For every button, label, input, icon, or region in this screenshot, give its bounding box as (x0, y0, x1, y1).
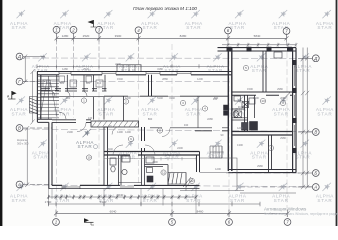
svg-text:11: 11 (162, 171, 165, 175)
svg-text:5140: 5140 (157, 96, 163, 100)
svg-text:1480: 1480 (173, 153, 179, 157)
flag bottom (84, 221, 94, 223)
svg-text:Чтобы активировать Windows, пе: Чтобы активировать Windows, перейдите в … (264, 212, 338, 216)
svg-text:А: А (17, 182, 21, 187)
svg-text:140: 140 (88, 116, 93, 120)
watermark grid ALPHA STAR (10, 10, 334, 203)
svg-text:3140: 3140 (107, 147, 113, 151)
svg-text:2190: 2190 (67, 130, 73, 134)
svg-text:1500: 1500 (247, 87, 253, 91)
svg-text:1750: 1750 (45, 200, 52, 204)
right wing walls (218, 48, 297, 173)
right axis circles (312, 55, 319, 62)
svg-text:890: 890 (148, 117, 153, 121)
svg-text:Активация Windows: Активация Windows (264, 207, 307, 212)
center interior walls (104, 127, 200, 185)
svg-text:760: 760 (46, 81, 51, 85)
svg-text:880: 880 (66, 96, 71, 100)
bottom wall left block (49, 188, 200, 190)
fixtures right wing (232, 52, 290, 130)
svg-text:Б: Б (314, 171, 317, 176)
left outer wall upper (37, 72, 40, 123)
interior walls upper-left (41, 75, 107, 120)
top dimension line (55, 34, 289, 42)
svg-text:1200: 1200 (237, 126, 243, 130)
svg-text:Д: Д (17, 54, 21, 59)
svg-text:2980: 2980 (280, 136, 286, 140)
door arcs (112, 127, 155, 156)
interior dim line y158.7 (104, 157, 196, 160)
svg-text:В: В (18, 126, 21, 131)
left wall step (37, 119, 52, 122)
entrance flag top (93, 20, 95, 27)
terrace outline (180, 158, 244, 191)
svg-text:1300: 1300 (237, 143, 243, 147)
building walls (37, 65, 232, 189)
svg-text:1400: 1400 (253, 96, 259, 100)
svg-text:3180: 3180 (157, 67, 163, 71)
staircase (38, 76, 66, 119)
bay above top wall (117, 65, 141, 72)
svg-text:1200: 1200 (197, 77, 203, 81)
svg-text:А: А (313, 185, 317, 190)
svg-text:8280: 8280 (180, 34, 187, 38)
elevation mark left (11, 91, 13, 99)
left outer wall lower (49, 122, 52, 188)
svg-text:680: 680 (86, 81, 91, 85)
svg-text:2: 2 (71, 27, 75, 32)
svg-text:2980: 2980 (277, 87, 283, 91)
svg-text:2980: 2980 (257, 164, 263, 168)
svg-text:6040: 6040 (110, 209, 117, 213)
svg-text:8460: 8460 (197, 209, 204, 213)
svg-text:1540: 1540 (117, 77, 123, 81)
svg-text:910: 910 (238, 105, 243, 109)
top main wall (37, 71, 232, 73)
svg-text:2680: 2680 (280, 96, 286, 100)
room circles (81, 65, 285, 183)
tiny dim texts (46, 62, 287, 171)
entrance ramp hatch (30, 97, 38, 114)
svg-text:5140: 5140 (100, 200, 107, 204)
scan edge right (336, 0, 338, 226)
svg-text:1280: 1280 (62, 34, 69, 38)
svg-text:910: 910 (97, 81, 102, 85)
svg-text:План первого этажа М 1:100: План первого этажа М 1:100 (133, 6, 197, 12)
svg-text:2280: 2280 (207, 117, 213, 121)
svg-text:300 х 300: 300 х 300 (17, 142, 29, 146)
bottom dimension lines (47, 189, 296, 217)
small stair center-right (210, 146, 224, 158)
svg-text:1490: 1490 (125, 130, 131, 134)
svg-text:Д: Д (313, 56, 317, 61)
row A dashed (240, 186, 310, 188)
svg-text:5840: 5840 (254, 34, 261, 38)
svg-text:1280: 1280 (62, 67, 68, 71)
corridor/room walls center (104, 75, 228, 131)
pillars right wing (227, 47, 297, 153)
svg-text:13: 13 (261, 99, 265, 103)
left axis circles (16, 53, 23, 60)
svg-text:В: В (314, 130, 317, 135)
svg-text:680: 680 (214, 96, 219, 100)
exterior steps hatch (168, 173, 186, 184)
svg-text:1490: 1490 (117, 130, 123, 134)
right wing top dims (37, 43, 297, 69)
svg-text:2520: 2520 (83, 34, 90, 38)
svg-text:3140: 3140 (169, 96, 175, 100)
mid horizontal wall (52, 120, 139, 127)
svg-text:910: 910 (73, 81, 78, 85)
bottom axis circles (53, 219, 60, 226)
fixtures center (110, 156, 193, 187)
svg-text:880: 880 (60, 81, 65, 85)
svg-text:2520: 2520 (83, 67, 89, 71)
svg-text:10: 10 (87, 156, 91, 160)
top axis circles (53, 26, 60, 33)
svg-text:2540: 2540 (117, 193, 124, 197)
svg-text:2090: 2090 (152, 160, 158, 164)
horizontal axis dash rows (23, 58, 312, 187)
left inner vertical dim (31, 70, 35, 125)
svg-text:12: 12 (190, 179, 194, 183)
svg-text:2880: 2880 (162, 77, 168, 81)
scan edge left (0, 0, 2, 226)
dark watermark in main room (76, 129, 94, 149)
svg-text:2400: 2400 (177, 146, 183, 150)
kitchen fixtures at wall x228 (224, 105, 242, 118)
svg-text:Кирпичн.: Кирпичн. (17, 138, 28, 142)
upper room fixtures (43, 76, 103, 96)
svg-text:3900: 3900 (115, 34, 122, 38)
svg-text:340: 340 (184, 123, 189, 127)
svg-text:1200: 1200 (215, 167, 221, 171)
svg-text:2400: 2400 (115, 62, 121, 66)
